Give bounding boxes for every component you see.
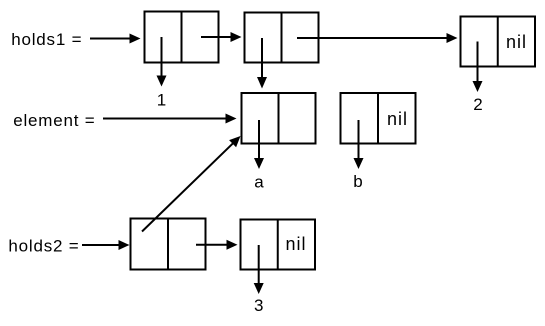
arrow cell1 cdr to cell2 [201, 36, 233, 38]
cons cellB box (nil) [341, 93, 416, 144]
arrow cellC car diagonal to cellA [142, 142, 234, 231]
svg-text:holds2 =: holds2 = [8, 237, 79, 256]
svg-text:holds1 =: holds1 = [11, 30, 82, 49]
wire cellD car down-arrow to 3 [258, 245, 260, 285]
wire cell3 car down-arrow to 2 [477, 42, 479, 84]
svg-text:b: b [353, 172, 362, 191]
cons cell3 box (nil) [461, 17, 536, 67]
arrow element to cellA [103, 118, 228, 120]
arrow cell2 cdr to cell3 [297, 37, 449, 39]
wire cellA car down-arrow to a [258, 120, 260, 160]
svg-text:nil: nil [387, 109, 408, 129]
svg-text:nil: nil [506, 32, 527, 52]
wire cell2 car down-arrow to cellA [261, 38, 263, 79]
wire cell1 car down-arrow to 1 [161, 37, 163, 78]
arrow holds1 to cell1 [90, 38, 131, 40]
svg-text:1: 1 [157, 91, 166, 110]
cons cell2 box [245, 13, 319, 63]
cons cellA box [242, 93, 316, 144]
cons cellC box [131, 219, 206, 270]
svg-text:a: a [254, 173, 264, 192]
svg-text:2: 2 [473, 95, 482, 114]
svg-text:element =: element = [13, 111, 95, 130]
arrow cellC cdr to cellD [196, 244, 229, 246]
cons cellD box (nil) [241, 220, 316, 270]
svg-text:3: 3 [254, 296, 263, 315]
cons cell1 box [145, 12, 219, 63]
arrow holds2 to cellC [82, 244, 121, 246]
svg-text:nil: nil [286, 234, 307, 254]
wire cellB car down-arrow to b [358, 120, 360, 160]
